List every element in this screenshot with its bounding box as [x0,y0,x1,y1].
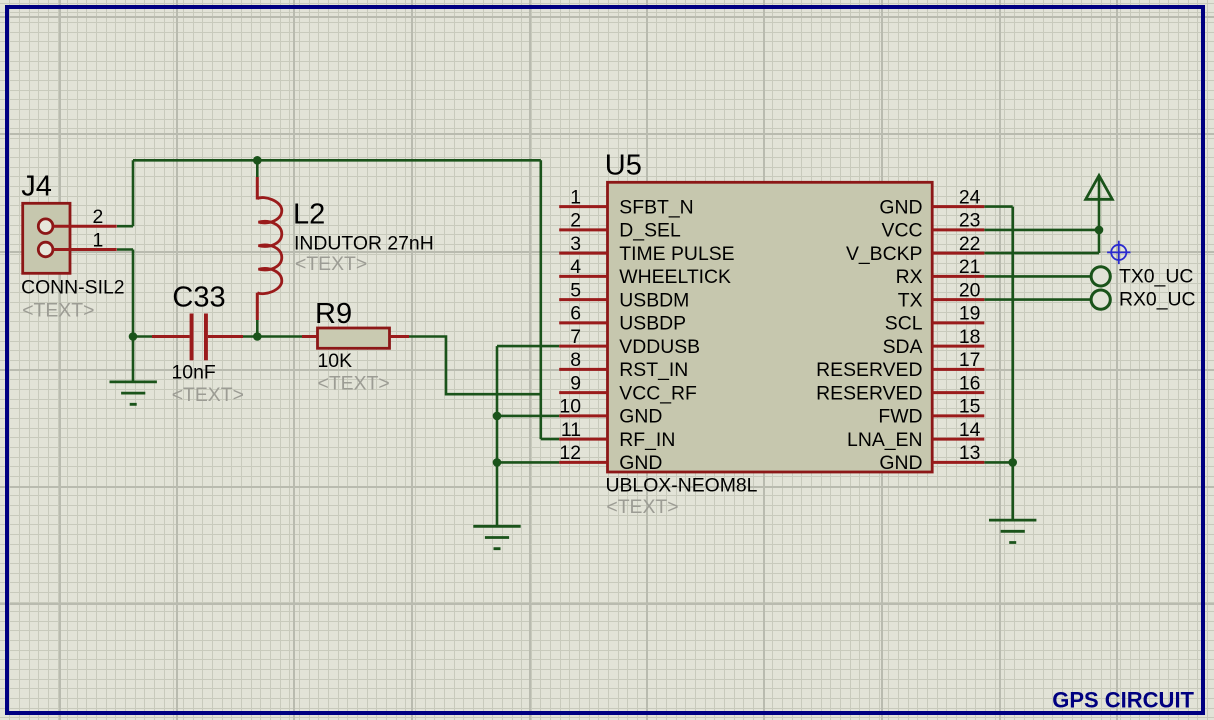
svg-text:FWD: FWD [878,406,922,428]
svg-text:21: 21 [959,256,981,278]
svg-text:GND: GND [619,452,662,474]
svg-text:TIME PULSE: TIME PULSE [619,243,734,265]
svg-text:20: 20 [959,279,981,301]
svg-text:LNA_EN: LNA_EN [847,429,922,451]
svg-text:14: 14 [959,419,981,441]
svg-text:1: 1 [93,229,104,251]
svg-text:RX0_UC: RX0_UC [1119,289,1196,311]
svg-text:17: 17 [959,349,981,371]
svg-text:2: 2 [570,210,581,232]
svg-text:D_SEL: D_SEL [619,220,681,242]
svg-text:RF_IN: RF_IN [619,429,675,451]
svg-text:VDDUSB: VDDUSB [619,336,700,358]
svg-text:TX: TX [898,289,923,311]
svg-text:U5: U5 [605,150,642,182]
svg-text:RST_IN: RST_IN [619,359,688,381]
svg-text:6: 6 [570,303,581,325]
svg-text:9: 9 [570,372,581,394]
svg-text:<TEXT>: <TEXT> [295,253,367,275]
svg-text:WHEELTICK: WHEELTICK [619,266,731,288]
svg-text:SCL: SCL [885,313,923,335]
svg-text:GND: GND [879,196,922,218]
svg-text:C33: C33 [172,282,225,314]
svg-text:23: 23 [959,210,981,232]
svg-text:RESERVED: RESERVED [816,382,922,404]
svg-text:R9: R9 [315,298,352,330]
svg-text:<TEXT>: <TEXT> [172,384,244,406]
svg-text:GPS CIRCUIT: GPS CIRCUIT [1052,688,1194,713]
svg-text:7: 7 [570,326,581,348]
svg-text:CONN-SIL2: CONN-SIL2 [21,276,124,298]
svg-text:10: 10 [559,396,581,418]
svg-text:TX0_UC: TX0_UC [1119,265,1193,287]
svg-text:UBLOX-NEOM8L: UBLOX-NEOM8L [606,474,758,496]
svg-text:22: 22 [959,233,981,255]
svg-text:GND: GND [619,406,662,428]
svg-text:GND: GND [879,452,922,474]
svg-text:<TEXT>: <TEXT> [318,373,390,395]
svg-text:SDA: SDA [883,336,923,358]
svg-text:USBDP: USBDP [619,313,686,335]
svg-text:<TEXT>: <TEXT> [22,300,94,322]
svg-text:1: 1 [570,186,581,208]
svg-text:10K: 10K [318,350,353,372]
svg-text:V_BCKP: V_BCKP [846,243,923,265]
svg-text:L2: L2 [293,199,325,231]
svg-text:SFBT_N: SFBT_N [619,196,693,218]
svg-text:24: 24 [959,186,981,208]
svg-text:18: 18 [959,326,981,348]
svg-text:15: 15 [959,396,981,418]
svg-text:J4: J4 [21,171,52,203]
svg-text:12: 12 [559,442,581,464]
svg-text:VCC: VCC [882,220,923,242]
svg-text:USBDM: USBDM [619,289,689,311]
svg-text:13: 13 [959,442,981,464]
svg-text:11: 11 [561,419,581,441]
svg-text:RX: RX [896,266,923,288]
svg-text:3: 3 [570,233,581,255]
svg-text:16: 16 [959,372,981,394]
svg-text:VCC_RF: VCC_RF [619,382,697,404]
svg-text:2: 2 [93,206,104,228]
svg-text:INDUTOR 27nH: INDUTOR 27nH [294,232,434,254]
svg-text:19: 19 [959,303,981,325]
svg-text:4: 4 [570,256,581,278]
svg-text:8: 8 [570,349,581,371]
svg-text:<TEXT>: <TEXT> [606,496,678,518]
svg-text:RESERVED: RESERVED [816,359,922,381]
svg-text:10nF: 10nF [172,362,216,384]
svg-text:5: 5 [570,279,581,301]
